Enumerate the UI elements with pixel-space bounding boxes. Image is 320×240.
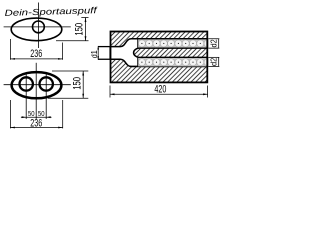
extension line left (236 top) bbox=[9, 39, 11, 60]
d1 dimension line bbox=[97, 46, 99, 60]
extension line bottom (150 bottom view) bbox=[48, 97, 88, 99]
right outlet pipe circle d2 bbox=[40, 77, 53, 90]
extension line right (236 top) bbox=[62, 43, 64, 60]
left outlet pipe circle d2 bbox=[20, 77, 33, 90]
dimension line 150 (bottom view) bbox=[82, 71, 84, 98]
Y pipe white channel bbox=[110, 39, 207, 67]
svg-text:150: 150 bbox=[71, 77, 83, 90]
extension line top (150 top view) bbox=[81, 17, 88, 19]
extension line right (420) bbox=[207, 86, 209, 98]
centerline horizontal (bottom view) bbox=[4, 84, 71, 86]
centerline vertical left outlet bbox=[25, 74, 27, 119]
extension line right (236 bottom) bbox=[62, 100, 64, 128]
body outline rect bbox=[111, 32, 208, 83]
centerline vertical (top view) bbox=[37, 3, 39, 49]
inlet pipe circle d1 (top view) bbox=[33, 21, 45, 33]
d2 extension lines upper pipe bbox=[208, 38, 219, 40]
extension line left (236 bottom) bbox=[9, 100, 11, 128]
svg-text:150: 150 bbox=[74, 23, 86, 36]
d2 extension lines lower pipe bbox=[208, 56, 219, 58]
svg-text:420: 420 bbox=[154, 83, 166, 95]
d2 dimension line upper bbox=[218, 39, 220, 48]
svg-text:d2: d2 bbox=[210, 39, 219, 47]
svg-text:236: 236 bbox=[30, 118, 42, 130]
d2 dimension line lower bbox=[218, 57, 220, 66]
inlet stub top line bbox=[98, 46, 110, 48]
oval shell (top view) bbox=[11, 18, 62, 41]
oval shell (bottom view) bbox=[12, 72, 62, 98]
extension line bottom (150 top view) bbox=[56, 40, 89, 42]
svg-text:d2: d2 bbox=[210, 58, 219, 66]
perforated section lower pipe bbox=[138, 58, 211, 66]
centerline vertical right outlet bbox=[45, 74, 47, 119]
dimension line 420 bbox=[110, 93, 208, 95]
dimension line 236 (bottom view) bbox=[10, 127, 62, 129]
extension line left (420) bbox=[109, 86, 111, 98]
dimension line 236 (top view) bbox=[10, 58, 62, 60]
separator line lower pipe bbox=[137, 58, 139, 67]
inlet stub bottom line bbox=[98, 58, 110, 60]
separator line upper pipe bbox=[137, 39, 139, 48]
dimension line 150 (top view) bbox=[85, 18, 87, 41]
svg-text:d1: d1 bbox=[90, 50, 99, 58]
perforated section upper pipe bbox=[138, 39, 211, 47]
extension line top (150 bottom view) bbox=[52, 70, 88, 72]
body interior hatch bbox=[111, 32, 208, 83]
dimension line 50/50 (bottom view) bbox=[21, 116, 52, 118]
centerline horizontal (top view) bbox=[4, 26, 71, 28]
centerline vertical middle (bottom view) bbox=[35, 63, 37, 119]
svg-text:236: 236 bbox=[30, 48, 42, 60]
